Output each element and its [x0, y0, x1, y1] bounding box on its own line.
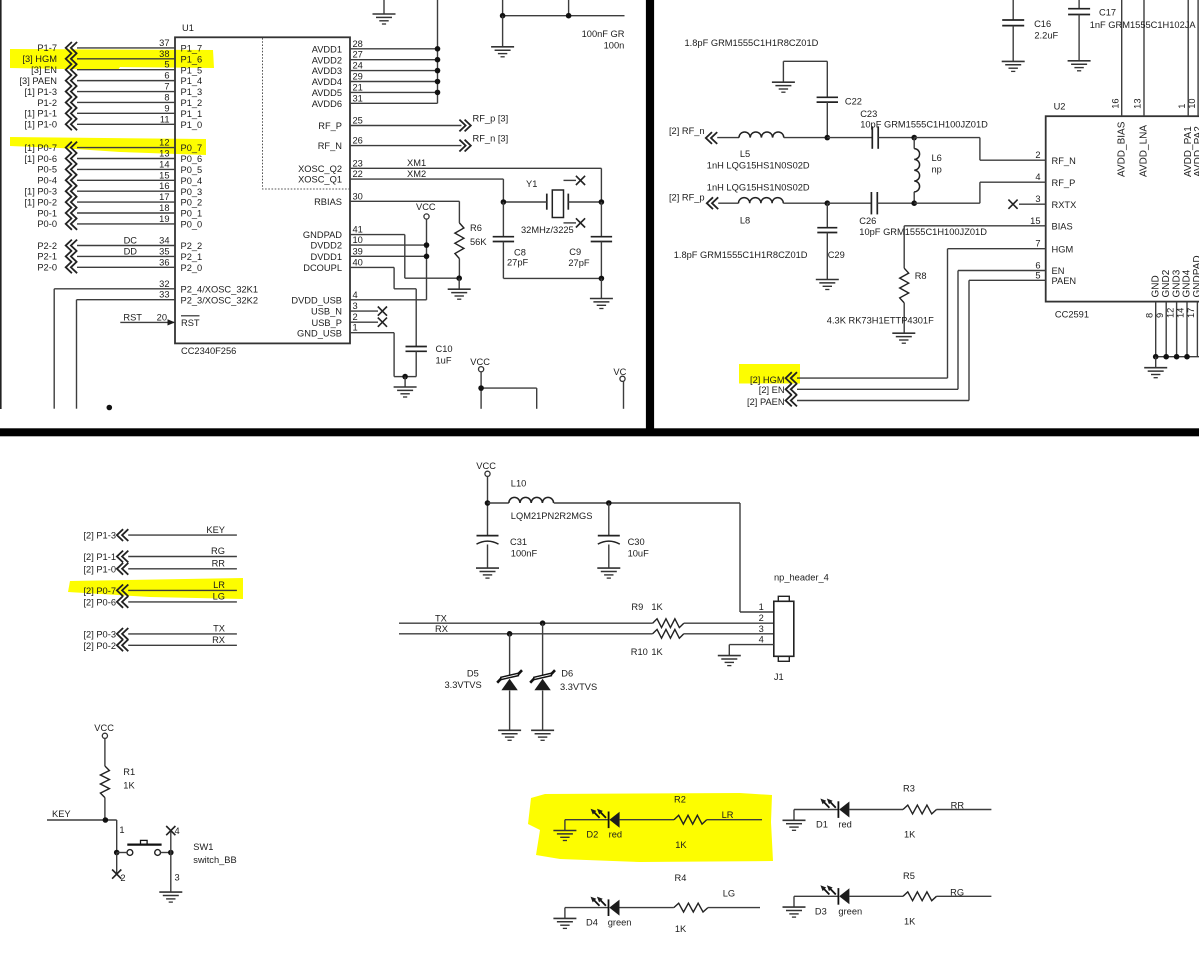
- svg-text:[2] RF_n: [2] RF_n: [669, 126, 705, 136]
- inductor L5: [707, 132, 828, 171]
- svg-text:P1_7: P1_7: [181, 44, 203, 54]
- U1 pin 17 P0_2 wire and off-page connector [1] P0-2: [24, 192, 202, 208]
- svg-text:XM1: XM1: [407, 158, 426, 168]
- svg-text:100nF: 100nF: [511, 548, 538, 558]
- svg-text:P2-1: P2-1: [37, 252, 57, 262]
- U2 pin 4 RF_P label: [1035, 172, 1075, 188]
- svg-text:R1: R1: [123, 767, 135, 777]
- svg-text:GNDPAD: GNDPAD: [303, 230, 342, 240]
- svg-text:22: 22: [353, 169, 363, 179]
- svg-text:P0_4: P0_4: [181, 176, 203, 186]
- junction dot GND_USB ground node: [402, 374, 408, 380]
- svg-text:P0-4: P0-4: [37, 176, 57, 186]
- svg-text:P2-2: P2-2: [37, 241, 57, 251]
- U1 pin 38 P1_6 wire and off-page connector [3] HGM: [22, 49, 202, 65]
- wire KEY net: [47, 820, 117, 853]
- svg-text:[3] PAEN: [3] PAEN: [19, 76, 57, 86]
- svg-text:[1] P1-3: [1] P1-3: [24, 87, 57, 97]
- svg-text:3: 3: [175, 873, 180, 883]
- IC U2 body: [1046, 116, 1199, 301]
- svg-text:XOSC_Q2: XOSC_Q2: [298, 164, 342, 174]
- svg-text:10uF: 10uF: [628, 548, 650, 558]
- svg-text:P1_6: P1_6: [181, 54, 203, 64]
- svg-text:1K: 1K: [651, 647, 663, 657]
- resistor R6: [455, 223, 487, 278]
- svg-text:P1_5: P1_5: [181, 65, 203, 75]
- svg-text:P0-5: P0-5: [37, 165, 57, 175]
- highlight marker over D2 red LED circuit: [528, 793, 773, 862]
- svg-text:[2] P0-3: [2] P0-3: [83, 629, 116, 639]
- svg-text:AVDD_BIAS: AVDD_BIAS: [1116, 121, 1127, 177]
- capacitor C10: [405, 344, 452, 377]
- capacitor C22 with ground: [772, 61, 862, 137]
- junction dot crystal right node: [599, 199, 605, 205]
- svg-text:13: 13: [1133, 98, 1143, 108]
- svg-text:USB_P: USB_P: [312, 318, 343, 328]
- svg-text:[2] P0-7: [2] P0-7: [83, 586, 116, 596]
- svg-text:RBIAS: RBIAS: [314, 197, 342, 207]
- highlight marker over P0_7 row: [10, 137, 206, 155]
- svg-text:3: 3: [759, 624, 764, 634]
- svg-text:SW1: SW1: [193, 842, 213, 852]
- junction dot RF_n / C22: [825, 135, 831, 141]
- svg-text:KEY: KEY: [206, 525, 225, 535]
- svg-text:12: 12: [1165, 308, 1175, 318]
- off-page connector [2] P0-3 net TX: [83, 624, 236, 640]
- U1 pin 6 P1_4 wire and off-page connector [3] PAEN: [19, 71, 202, 87]
- off-page connector [2] RF_n: [669, 126, 717, 144]
- svg-text:3: 3: [1035, 194, 1040, 204]
- svg-text:[1] P0-7: [1] P0-7: [24, 143, 57, 153]
- svg-text:C16: C16: [1034, 19, 1051, 29]
- U2 pin 6 EN label: [1035, 261, 1064, 277]
- junction dot crystal left node: [501, 199, 507, 205]
- U1 pin 9 P1_1 wire and off-page connector [1] P1-1: [24, 103, 202, 119]
- svg-text:P2_0: P2_0: [181, 263, 203, 273]
- svg-text:VCC: VCC: [470, 357, 490, 367]
- U2 pin 15 BIAS label: [1030, 216, 1073, 232]
- ground symbol under U2: [1144, 367, 1167, 369]
- U2 pin 8 GND bottom wire: [1144, 275, 1161, 356]
- svg-text:36: 36: [159, 257, 169, 267]
- svg-text:RF_P: RF_P: [318, 121, 342, 131]
- svg-text:J1: J1: [774, 672, 784, 682]
- svg-text:15: 15: [159, 170, 169, 180]
- svg-text:AVDD_PA2: AVDD_PA2: [1193, 126, 1199, 177]
- ground symbol above U1: [373, 0, 396, 24]
- VCC symbol bottom left: [470, 357, 536, 409]
- svg-text:VCC: VCC: [416, 202, 436, 212]
- svg-text:AVDD3: AVDD3: [312, 66, 342, 76]
- svg-text:DVDD2: DVDD2: [310, 241, 342, 251]
- svg-text:VCC: VCC: [476, 461, 496, 471]
- junction dot RF_n / L6: [911, 135, 917, 141]
- svg-text:29: 29: [353, 72, 363, 82]
- svg-text:GND3: GND3: [1171, 269, 1182, 297]
- U1 pin 4 DVDD_USB wire: [291, 290, 426, 306]
- crystal case pin no-connect upper: [564, 176, 586, 185]
- svg-text:GND_USB: GND_USB: [297, 328, 342, 338]
- off-page connector [2] PAEN wire to U2 pin 5: [747, 280, 1046, 407]
- svg-text:[1] P1-1: [1] P1-1: [24, 109, 57, 119]
- svg-text:C17: C17: [1099, 8, 1116, 18]
- svg-text:RF_N: RF_N: [1052, 156, 1076, 166]
- svg-text:14: 14: [1176, 308, 1186, 318]
- svg-text:RG: RG: [950, 888, 964, 898]
- svg-text:RR: RR: [212, 559, 226, 569]
- U2 pin 15 BIAS wire: [904, 225, 1045, 227]
- capacitor C16 with ground: [1002, 0, 1059, 71]
- svg-text:16: 16: [1110, 98, 1120, 108]
- svg-text:11: 11: [160, 114, 170, 124]
- U1 pin 11 P1_0 wire and off-page connector [1] P1-0: [24, 114, 202, 130]
- svg-text:1nH LQG15HS1N0S02D: 1nH LQG15HS1N0S02D: [707, 161, 810, 171]
- U2 pin 5 PAEN label: [1035, 270, 1076, 286]
- svg-text:AVDD1: AVDD1: [312, 44, 342, 54]
- svg-text:16: 16: [159, 181, 169, 191]
- ground symbol under R6: [448, 278, 471, 299]
- svg-text:1K: 1K: [904, 829, 916, 839]
- inductor L10: [488, 478, 741, 521]
- svg-text:1.8pF GRM1555C1H1R8CZ01D: 1.8pF GRM1555C1H1R8CZ01D: [674, 250, 808, 260]
- U1 pin 34 P2_2 wire and off-page connector P2-2: [37, 236, 202, 252]
- junction dot C9 ground node: [599, 276, 605, 282]
- svg-text:EN: EN: [1052, 266, 1065, 276]
- svg-text:P1_2: P1_2: [181, 98, 203, 108]
- svg-text:[1] P1-0: [1] P1-0: [24, 120, 57, 130]
- resistor R1: [100, 766, 135, 820]
- svg-text:KEY: KEY: [52, 809, 71, 819]
- svg-text:1: 1: [759, 602, 764, 612]
- resistor R2: [620, 795, 762, 851]
- svg-text:P0_7: P0_7: [181, 143, 203, 153]
- U2 pin 17 GNDPAD bottom wire: [1186, 255, 1199, 356]
- svg-text:4: 4: [1035, 172, 1040, 182]
- svg-text:RG: RG: [211, 546, 225, 556]
- resistor R10: [631, 629, 774, 657]
- U1 pin 30 RBIAS wire: [314, 191, 459, 223]
- svg-text:2: 2: [1035, 150, 1040, 160]
- svg-text:D3: D3: [815, 906, 827, 916]
- svg-text:P0_2: P0_2: [181, 198, 203, 208]
- svg-text:green: green: [838, 906, 862, 916]
- off-page connector [2] P1-1 net RG: [83, 546, 236, 562]
- wire RX rail: [399, 633, 653, 635]
- U1 pin 16 P0_3 wire and off-page connector [1] P0-3: [24, 181, 202, 197]
- U1 pin 26 RF_N wire and off-page connector RF_n [3]: [318, 134, 508, 152]
- svg-text:AVDD6: AVDD6: [312, 99, 342, 109]
- svg-text:VC: VC: [613, 367, 626, 377]
- inductor L6 (np): [914, 138, 942, 204]
- svg-text:P2_4/XOSC_32K1: P2_4/XOSC_32K1: [181, 284, 259, 294]
- svg-text:1uF: 1uF: [436, 356, 452, 366]
- U1 pin 18 P0_1 wire and off-page connector P0-1: [37, 203, 202, 219]
- VCC symbol above R1: [94, 723, 114, 766]
- svg-text:RST: RST: [123, 312, 142, 322]
- U1 pin 12 P0_7 wire and off-page connector [1] P0-7: [24, 138, 202, 154]
- svg-text:P2_2: P2_2: [181, 241, 203, 251]
- svg-text:AVDD5: AVDD5: [312, 88, 342, 98]
- svg-text:[2] EN: [2] EN: [759, 385, 785, 395]
- svg-text:DCOUPL: DCOUPL: [303, 263, 342, 273]
- svg-text:1: 1: [353, 323, 358, 333]
- ground symbol at D1: [783, 819, 806, 821]
- U1 pin 27 AVDD2 wire: [312, 50, 441, 66]
- U2 pin 2 RF_N label: [1035, 150, 1075, 166]
- U2 pin 12 GND3 bottom wire: [1165, 269, 1182, 356]
- svg-text:6: 6: [164, 71, 169, 81]
- svg-text:R2: R2: [674, 795, 686, 805]
- svg-text:C22: C22: [845, 97, 862, 107]
- off-page connector [2] EN wire to U2 pin 6: [759, 271, 1046, 396]
- junction dot RF_p / L6: [911, 200, 917, 206]
- svg-text:P0_3: P0_3: [181, 187, 203, 197]
- ground symbol under SW1: [159, 891, 182, 893]
- svg-text:DC: DC: [124, 236, 138, 246]
- svg-text:AVDD4: AVDD4: [312, 77, 342, 87]
- U1 pin 25 RF_P wire and off-page connector RF_p [3]: [318, 114, 508, 132]
- LED D1 (red): [794, 799, 852, 830]
- svg-text:L10: L10: [511, 478, 527, 488]
- U1 pin 37 P1_7 wire and off-page connector P1-7: [37, 38, 202, 54]
- svg-text:32: 32: [159, 279, 169, 289]
- svg-text:P0_6: P0_6: [181, 154, 203, 164]
- svg-text:[3] EN: [3] EN: [31, 65, 57, 75]
- off-page connector [2] P0-6 net LG: [83, 592, 236, 608]
- svg-text:10pF GRM1555C1H100JZ01D: 10pF GRM1555C1H100JZ01D: [859, 227, 987, 237]
- U1 pin 1 GND_USB wire: [297, 323, 405, 377]
- svg-text:4: 4: [175, 826, 180, 836]
- svg-text:RF_N: RF_N: [318, 141, 342, 151]
- svg-text:P1_3: P1_3: [181, 87, 203, 97]
- junction dot RF_p / C29: [825, 200, 831, 206]
- capacitor C8: [493, 202, 602, 278]
- svg-text:19: 19: [159, 214, 169, 224]
- svg-text:P1_1: P1_1: [181, 109, 203, 119]
- svg-text:red: red: [609, 830, 622, 840]
- svg-text:LG: LG: [723, 888, 735, 898]
- U1 pin 21 AVDD5 wire: [312, 82, 441, 98]
- svg-text:9: 9: [164, 103, 169, 113]
- resistor R4: [620, 873, 761, 934]
- capacitor C30 with ground: [597, 503, 649, 578]
- svg-text:C9: C9: [569, 247, 581, 257]
- svg-text:27pF: 27pF: [507, 258, 529, 268]
- svg-text:LG: LG: [213, 592, 225, 602]
- svg-text:2: 2: [759, 613, 764, 623]
- wire TX rail: [399, 622, 653, 624]
- resistor R3: [849, 784, 991, 840]
- svg-text:41: 41: [353, 225, 363, 235]
- svg-text:switch_BB: switch_BB: [193, 855, 236, 865]
- capacitor C29 with ground: [816, 203, 845, 289]
- svg-text:P0-1: P0-1: [37, 208, 57, 218]
- LED D2 (red): [565, 809, 622, 840]
- svg-text:C23: C23: [860, 109, 877, 119]
- U2 pin 3 RXTX label: [1035, 194, 1076, 210]
- svg-text:LQM21PN2R2MGS: LQM21PN2R2MGS: [511, 511, 593, 521]
- svg-text:35: 35: [159, 246, 169, 256]
- LED D3 (green): [794, 885, 862, 916]
- svg-text:U2: U2: [1054, 102, 1066, 112]
- svg-text:D6: D6: [561, 668, 573, 678]
- svg-text:np_header_4: np_header_4: [774, 573, 829, 583]
- junction dot VCC/L10/C31: [485, 500, 491, 506]
- svg-text:[1] P0-2: [1] P0-2: [24, 197, 57, 207]
- svg-text:21: 21: [353, 82, 363, 92]
- svg-text:[1] P0-6: [1] P0-6: [24, 154, 57, 164]
- capacitor C17 with ground: [1068, 0, 1197, 71]
- svg-text:1.8pF GRM1555C1H1R8CZ01D: 1.8pF GRM1555C1H1R8CZ01D: [685, 38, 819, 48]
- svg-text:DVDD1: DVDD1: [310, 252, 342, 262]
- svg-text:RX: RX: [435, 624, 448, 634]
- VCC symbol at DVDD rail: [416, 202, 436, 300]
- svg-text:1nF GRM1555C1H102JA: 1nF GRM1555C1H102JA: [1090, 20, 1197, 30]
- svg-text:DVDD_USB: DVDD_USB: [291, 295, 342, 305]
- svg-text:8: 8: [164, 92, 169, 102]
- SW1 pin 4 no-connect: [166, 826, 179, 853]
- U1 pin 41 GNDPAD wire: [303, 225, 459, 279]
- wire RF_p to U2 pin 4: [914, 182, 1045, 203]
- svg-text:27pF: 27pF: [568, 258, 590, 268]
- svg-text:12: 12: [159, 138, 169, 148]
- junction dot at clipped page bottom: [107, 405, 113, 411]
- svg-text:C26: C26: [859, 216, 876, 226]
- svg-text:L6: L6: [932, 153, 942, 163]
- svg-text:6: 6: [1035, 261, 1040, 271]
- svg-text:D5: D5: [467, 668, 479, 678]
- svg-text:100nF GR: 100nF GR: [582, 29, 625, 39]
- svg-text:red: red: [838, 820, 851, 830]
- U1 pin 23 XOSC_Q2 wire net XM1: [298, 158, 601, 202]
- svg-text:2.2uF: 2.2uF: [1034, 30, 1058, 40]
- junction dot DVDD1/VCC: [424, 253, 430, 259]
- highlight marker over [2] HGM label: [739, 364, 800, 384]
- svg-text:4: 4: [759, 635, 764, 645]
- svg-text:38: 38: [159, 49, 169, 59]
- U1 pin 2 USB_P wire with no-connect: [312, 312, 388, 328]
- svg-text:20: 20: [157, 312, 167, 322]
- svg-text:3.3VTVS: 3.3VTVS: [560, 682, 597, 692]
- inductor L8: [718, 198, 827, 226]
- U1 pin 19 P0_0 wire and off-page connector P0-0: [37, 214, 202, 230]
- U1 pin 24 AVDD3 wire: [312, 61, 441, 77]
- svg-text:USB_N: USB_N: [311, 307, 342, 317]
- svg-text:39: 39: [353, 246, 363, 256]
- svg-text:33: 33: [159, 290, 169, 300]
- svg-text:P0-0: P0-0: [37, 219, 57, 229]
- svg-text:np: np: [932, 165, 942, 175]
- U1 pin 14 P0_5 wire and off-page connector P0-5: [37, 159, 202, 175]
- svg-text:RF_p [3]: RF_p [3]: [473, 114, 509, 124]
- IC U1 body: [175, 37, 350, 343]
- svg-text:13: 13: [159, 149, 169, 159]
- svg-text:C30: C30: [628, 537, 645, 547]
- svg-text:[2] P1-0: [2] P1-0: [83, 564, 116, 574]
- LED D4 (green): [565, 897, 632, 928]
- U1 pin 39 DVDD1 wire: [310, 246, 426, 262]
- svg-text:10pF GRM1555C1H100JZ01D: 10pF GRM1555C1H100JZ01D: [860, 119, 988, 129]
- svg-text:PAEN: PAEN: [1052, 276, 1077, 286]
- U2 pin 16 AVDD_BIAS top wire: [1110, 0, 1127, 177]
- switch SW1 switch_BB: [114, 825, 237, 865]
- page 1 left border line: [0, 0, 2, 409]
- svg-text:2: 2: [120, 873, 125, 883]
- svg-text:5: 5: [164, 60, 169, 70]
- resistor R9: [631, 602, 773, 628]
- svg-text:D2: D2: [586, 830, 598, 840]
- svg-text:RX: RX: [212, 635, 225, 645]
- svg-text:DD: DD: [124, 246, 138, 256]
- svg-text:CC2340F256: CC2340F256: [181, 346, 236, 356]
- U1 pin 33 P2_3/XOSC_32K2 wire: [77, 290, 259, 409]
- crystal case pin no-connect lower: [564, 218, 586, 227]
- U1 pin 32 P2_4/XOSC_32K1 wire: [54, 279, 258, 409]
- svg-text:GND2: GND2: [1161, 269, 1172, 297]
- svg-text:R10: R10: [631, 647, 648, 657]
- U2 pin 10 AVDD_PA2 top wire: [1187, 0, 1199, 177]
- page divider vertical bar: [646, 0, 654, 430]
- svg-text:AVDD_LNA: AVDD_LNA: [1139, 125, 1150, 177]
- off-page connector [2] P1-0 net RR: [83, 559, 236, 575]
- svg-text:[3] HGM: [3] HGM: [22, 54, 57, 64]
- capacitor C31 with ground: [476, 536, 537, 579]
- U1 pin 10 DVDD2 wire: [310, 235, 426, 251]
- J1 pin 4 ground wire: [718, 645, 774, 666]
- U1 pin 15 P0_4 wire and off-page connector P0-4: [37, 170, 202, 186]
- wire VCC rail to header pin 1: [740, 503, 774, 612]
- svg-text:P2_1: P2_1: [181, 252, 203, 262]
- U1 pin 20 RST wire with arrowhead: [120, 312, 200, 328]
- svg-text:1: 1: [119, 825, 124, 835]
- svg-text:14: 14: [159, 159, 169, 169]
- U2 pin 9 GND2 bottom wire: [1155, 269, 1172, 356]
- ground symbol on decoupling rail: [491, 46, 514, 48]
- U1 pin 28 AVDD1 wire: [312, 39, 441, 55]
- svg-text:[2] HGM: [2] HGM: [750, 375, 785, 385]
- svg-text:1nH LQG15HS1N0S02D: 1nH LQG15HS1N0S02D: [707, 182, 810, 192]
- svg-text:1K: 1K: [675, 840, 687, 850]
- VCC symbol clipped at page edge: [613, 367, 626, 409]
- SW1 pin 3 ground wire: [171, 853, 180, 893]
- svg-text:RF_P: RF_P: [1052, 178, 1076, 188]
- svg-text:26: 26: [353, 136, 363, 146]
- U2 pin 1 AVDD_PA1 top wire: [1177, 0, 1194, 177]
- svg-text:34: 34: [159, 236, 169, 246]
- svg-text:R9: R9: [631, 602, 643, 612]
- ground symbol under D6: [531, 729, 554, 731]
- resistor R5: [849, 871, 991, 926]
- svg-text:9: 9: [1155, 313, 1165, 318]
- svg-text:P1_4: P1_4: [181, 76, 203, 86]
- svg-text:32MHz/3225: 32MHz/3225: [521, 225, 574, 235]
- svg-text:XM2: XM2: [407, 169, 426, 179]
- svg-text:8: 8: [1144, 313, 1154, 318]
- U1 pin 8 P1_2 wire and off-page connector P1-2: [37, 92, 202, 108]
- U1 RF section dotted boundary: [263, 38, 350, 189]
- junction dot KEY/R1: [103, 817, 109, 823]
- svg-text:C31: C31: [510, 537, 527, 547]
- svg-text:[2] RF_p: [2] RF_p: [669, 192, 705, 202]
- svg-text:10: 10: [1187, 98, 1197, 108]
- svg-text:TX: TX: [213, 624, 225, 634]
- svg-text:1K: 1K: [123, 780, 135, 790]
- svg-text:2: 2: [353, 312, 358, 322]
- junction dot R6/GNDPAD ground node: [456, 275, 462, 281]
- TVS diode D6: [530, 623, 597, 730]
- svg-text:Y1: Y1: [526, 179, 537, 189]
- U2 ground bus: [1153, 354, 1199, 368]
